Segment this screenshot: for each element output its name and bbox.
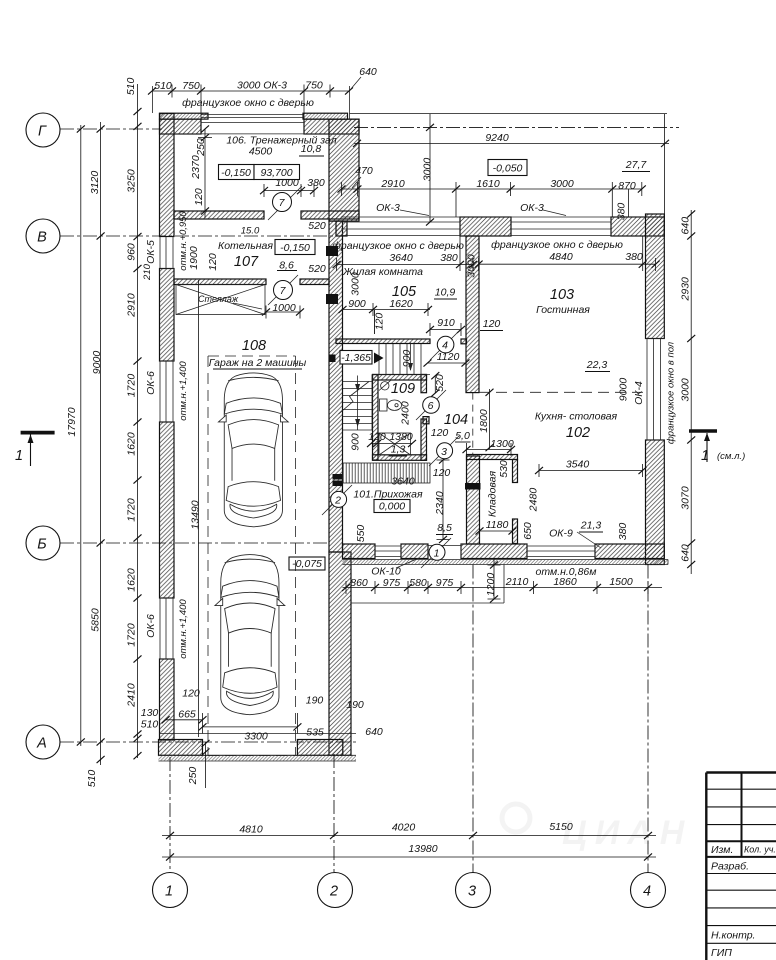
svg-text:5850: 5850 [90, 608, 102, 632]
svg-text:1610: 1610 [476, 178, 500, 190]
svg-text:120: 120 [374, 313, 386, 331]
wall: right wing top, NE corner pier [611, 217, 664, 236]
svg-text:3640: 3640 [389, 252, 413, 264]
svg-text:А: А [36, 736, 47, 752]
ticks room 105 dims [339, 306, 347, 313]
svg-text:210: 210 [142, 263, 153, 281]
svg-text:860: 860 [350, 577, 368, 589]
svg-text:1300: 1300 [490, 438, 514, 450]
svg-text:520: 520 [434, 374, 446, 392]
svg-text:-0,150: -0,150 [280, 242, 310, 254]
wall: gym top, left pier [160, 119, 202, 134]
svg-text:французкое окно в пол: французкое окно в пол [666, 341, 677, 444]
svg-text:2910: 2910 [126, 293, 138, 318]
svg-text:3: 3 [468, 884, 476, 900]
wall: gym-boiler partition right piece [301, 211, 359, 219]
vert dim 13490 garage [198, 280, 200, 737]
underline 22,3 [585, 371, 610, 373]
dim line 1120 hall [428, 362, 466, 364]
svg-text:120: 120 [193, 188, 205, 206]
svg-text:4: 4 [442, 340, 448, 352]
svg-text:2340: 2340 [434, 491, 446, 516]
leader Стеллаж [233, 303, 262, 309]
svg-text:3300: 3300 [244, 731, 268, 743]
svg-text:250: 250 [187, 767, 199, 786]
svg-text:640: 640 [680, 217, 692, 235]
dashed boundary 104/102 [472, 393, 474, 455]
svg-text:380: 380 [307, 177, 325, 189]
ticks top gym dim [148, 87, 156, 94]
shelf Стеллаж with X cross [176, 285, 265, 315]
svg-text:4500: 4500 [249, 146, 273, 158]
svg-text:3540: 3540 [566, 459, 590, 471]
svg-text:-0,050: -0,050 [493, 163, 523, 175]
level box -0,150 boiler [275, 240, 315, 255]
svg-text:4020: 4020 [392, 822, 416, 834]
svg-text:Изм.: Изм. [711, 844, 733, 856]
svg-text:ОК-3: ОК-3 [376, 202, 400, 214]
wall: gym east thick wall [329, 119, 359, 221]
wall: garage bottom right pier [297, 740, 342, 756]
extension NE pier [627, 189, 629, 217]
svg-text:102: 102 [566, 425, 590, 441]
svg-text:120: 120 [483, 318, 501, 330]
svg-text:0,000: 0,000 [379, 501, 405, 513]
svg-text:101.Прихожая: 101.Прихожая [353, 489, 423, 501]
svg-text:Кладовая: Кладовая [487, 470, 499, 517]
axis 2 vertical dash-dot [333, 754, 335, 872]
svg-text:190: 190 [306, 695, 324, 707]
level box -0,075 garage [289, 557, 325, 570]
leader ОК-3 #1 [400, 210, 429, 216]
svg-text:-0,150: -0,150 [221, 167, 251, 179]
dim line: boiler door 1000 [266, 306, 300, 319]
svg-text:130: 130 [141, 707, 159, 719]
svg-text:640: 640 [359, 66, 377, 78]
svg-text:470: 470 [355, 165, 373, 177]
window OK-10 bottom wall [375, 544, 401, 559]
svg-text:2410: 2410 [126, 683, 138, 708]
wall: bathroom east lower [421, 419, 427, 460]
svg-text:1000: 1000 [272, 302, 296, 314]
vent duct black squares corridor wall [326, 246, 338, 256]
svg-text:3: 3 [441, 446, 447, 458]
wall: left exterior, segment below OK-5 [160, 269, 175, 362]
axis В horizontal dash-dot [60, 235, 340, 237]
vert dim 1800 (102 west) [489, 389, 491, 449]
svg-text:3000: 3000 [550, 178, 574, 190]
entry mat hatch [343, 463, 430, 483]
wall: corridor west / garage east wall [329, 221, 343, 552]
ticks 9240 [353, 140, 361, 147]
ticks right wing top dims [338, 185, 346, 192]
svg-text:520: 520 [308, 220, 326, 232]
stairs arrow left flight [357, 376, 359, 431]
entrance door opening edges [428, 544, 461, 559]
svg-text:3250: 3250 [126, 169, 138, 193]
svg-text:-1,365: -1,365 [341, 352, 371, 364]
parking space dashed lines [208, 356, 296, 756]
svg-text:750: 750 [182, 80, 200, 92]
vert dim 1200 porch [488, 559, 501, 600]
svg-text:9000: 9000 [618, 378, 630, 402]
wall: bottom wall piece 1 (x346-375) [343, 544, 376, 559]
svg-text:отм.н.+1,400: отм.н.+1,400 [178, 361, 189, 421]
left dim column x=97 [100, 122, 102, 765]
wall: right exterior upper segment [646, 214, 665, 339]
dashed divider rooms 103/102 [479, 391, 645, 393]
level box -0,050 [488, 160, 527, 176]
vent block left of -1,365 [329, 355, 336, 363]
svg-text:380: 380 [625, 251, 643, 263]
blind area hatch right [343, 560, 669, 565]
level box 93,700 gym [254, 165, 300, 180]
wash basin [381, 382, 389, 390]
wall: gym-boiler partition left piece [174, 211, 264, 219]
svg-text:Жилая комната: Жилая комната [342, 266, 423, 278]
blind area strip below south wall [343, 560, 669, 565]
window OK-6a left wall [160, 361, 174, 422]
wall: bathroom west [373, 375, 379, 461]
wall: partition below room 105 [336, 339, 430, 344]
dim line: bathroom 120/1380 [371, 443, 412, 445]
axis circle 3 [456, 873, 491, 908]
underline 10,8 [299, 155, 324, 157]
svg-text:9240: 9240 [485, 132, 509, 144]
vert dim 520 bathroom [434, 376, 436, 393]
svg-text:4: 4 [643, 884, 651, 900]
svg-text:650: 650 [522, 522, 534, 540]
stairs break line [339, 382, 370, 415]
ticks left col x97 [97, 125, 105, 132]
svg-text:103: 103 [550, 287, 574, 303]
ticks 250 [202, 740, 210, 747]
window OK-5 left wall [160, 237, 174, 269]
axis 3 vertical dash-dot [472, 565, 474, 874]
leader ОК-10 [396, 558, 419, 568]
svg-text:ГИП: ГИП [711, 947, 732, 959]
shower tray with X [379, 433, 411, 455]
svg-text:2370: 2370 [190, 155, 202, 180]
underline Гараж на 2 машины [213, 368, 302, 370]
svg-text:870: 870 [618, 180, 636, 192]
svg-text:8,6: 8,6 [279, 260, 294, 272]
svg-text:22,3: 22,3 [586, 359, 608, 371]
wall: bathroom east upper [421, 375, 427, 393]
svg-text:французкое окно с дверью: французкое окно с дверью [332, 240, 464, 252]
marker circle 1 [429, 544, 445, 560]
dim line: french window 105 (3640,380) [337, 236, 473, 271]
wall: right wing top, small west piece [336, 221, 347, 236]
dim line 665 [166, 719, 203, 721]
extension lines top-left corner [152, 86, 349, 119]
svg-text:250: 250 [195, 138, 207, 157]
dim line: 910 door [430, 323, 461, 336]
svg-text:ОК-4: ОК-4 [633, 381, 645, 405]
right dim column x=691 [690, 210, 692, 574]
svg-text:2: 2 [329, 884, 338, 900]
window OK-9 bottom wall [527, 544, 595, 559]
small dim 250 below garage [205, 742, 207, 788]
underline 120 (103) [480, 330, 503, 332]
svg-text:665: 665 [178, 709, 196, 721]
svg-text:В: В [37, 230, 47, 246]
svg-text:Гостинная: Гостинная [536, 304, 590, 316]
dim line: right wing top (470,2910,1610,3000,870) [342, 182, 643, 217]
svg-text:2480: 2480 [528, 488, 540, 513]
vert dim 2340 hall [437, 460, 450, 540]
dim line: garage door 3300 [203, 713, 298, 734]
axis circle 1 [153, 873, 188, 908]
svg-text:1: 1 [701, 448, 709, 464]
ticks right col x691 [687, 210, 695, 217]
wall: gym top facade strip right [303, 113, 348, 119]
svg-text:(см.л.): (см.л.) [717, 451, 745, 462]
wall: storeroom east stub lower [513, 519, 518, 544]
svg-text:1720: 1720 [126, 374, 138, 398]
ticks 3540 [535, 467, 543, 474]
dim line: kitchen 3540 [539, 464, 643, 477]
svg-text:3070: 3070 [680, 486, 692, 510]
svg-text:120: 120 [433, 467, 451, 479]
svg-text:2110: 2110 [505, 576, 529, 588]
svg-text:120: 120 [207, 253, 219, 271]
ticks 1300 [463, 446, 471, 453]
svg-text:3120: 3120 [89, 171, 101, 195]
marker circle 7 gym [273, 193, 292, 212]
wall: bottom wall piece 4 (x595-664) [595, 544, 664, 559]
axis Г horizontal dash-dot [60, 128, 162, 130]
svg-text:27,7: 27,7 [625, 159, 648, 171]
vent square storeroom wall [465, 483, 481, 490]
axis circle А [26, 725, 60, 759]
wall: garage east wall lower with facing [329, 552, 351, 755]
porch edge at entrance [351, 565, 504, 604]
french window room 105 top [341, 222, 460, 236]
stairs arrow upper flight [410, 343, 412, 371]
underline 120 (105) rotated [374, 310, 376, 334]
toilet tank [380, 399, 388, 411]
svg-text:530: 530 [498, 460, 510, 478]
wall: storeroom east stub upper [513, 460, 518, 483]
svg-text:21,3: 21,3 [580, 520, 602, 532]
marker circle 4 [437, 336, 454, 353]
dim line: gym door 1000/380 [264, 184, 314, 197]
top thin line right wing [350, 114, 668, 217]
leader 640 top [350, 77, 361, 90]
svg-text:900: 900 [348, 298, 366, 310]
ticks 2340 [439, 456, 447, 463]
svg-text:1900: 1900 [188, 246, 200, 270]
svg-text:2: 2 [334, 494, 341, 506]
dim line: bottom axes row 1 (4810,4020,5150) [162, 835, 656, 837]
svg-text:108: 108 [242, 338, 266, 354]
blind area hatch below garage [159, 755, 357, 761]
ticks 1200 [490, 561, 498, 568]
axis circle В [26, 219, 60, 253]
stairs left flight treads [343, 382, 373, 431]
left dim column x=70 (17970) [80, 125, 82, 746]
ticks gym door [260, 187, 268, 194]
faint site watermark [502, 804, 692, 852]
wall: door jamb jog [423, 417, 429, 424]
ticks 520/1120 [431, 372, 439, 379]
svg-text:105: 105 [392, 284, 417, 300]
wall: gym top, right pier [304, 119, 359, 134]
ticks boiler door [262, 308, 270, 315]
axis circle 4 [631, 873, 666, 908]
svg-text:107: 107 [234, 254, 259, 270]
svg-text:104: 104 [444, 412, 468, 428]
svg-text:10,8: 10,8 [301, 143, 322, 155]
wall: boiler-garage partition left piece [174, 279, 266, 285]
ticks bathroom 120/1380 [367, 440, 375, 447]
wall: left exterior, segment top (gym+boiler) [160, 114, 175, 237]
underline 1,3 [389, 455, 407, 457]
ticks 1180 [476, 527, 484, 534]
ticks garage door [199, 723, 207, 730]
stairs upper flight treads [379, 344, 421, 375]
ticks 1800 [486, 389, 494, 396]
marker leaders [268, 186, 460, 568]
svg-text:4810: 4810 [239, 824, 263, 836]
svg-text:975: 975 [436, 577, 454, 589]
axis 1 vertical dash-dot [169, 757, 171, 872]
svg-text:3000: 3000 [422, 158, 434, 182]
dim line: bottom total 13980 [162, 856, 656, 858]
wall: left exterior, bottom garage segment [160, 659, 175, 740]
french window room 103 top [511, 222, 611, 236]
svg-text:1: 1 [165, 884, 173, 900]
svg-text:французкое окно с дверью: французкое окно с дверью [491, 239, 623, 251]
svg-text:750: 750 [305, 80, 323, 92]
ticks gym vert [201, 125, 209, 132]
svg-text:3000: 3000 [466, 254, 478, 278]
section marker left [21, 431, 55, 435]
svg-text:380: 380 [616, 203, 628, 221]
vert dim gym left (250,2370) [198, 129, 212, 218]
underline 8,5 [436, 534, 453, 536]
wall: left exterior, middle garage segment [160, 422, 175, 598]
svg-text:8,5: 8,5 [437, 522, 452, 534]
svg-text:510: 510 [86, 770, 98, 788]
svg-text:1620: 1620 [126, 432, 138, 456]
svg-text:Б: Б [37, 537, 46, 553]
svg-text:510: 510 [141, 719, 159, 731]
window OK-6b left wall [160, 598, 174, 659]
svg-text:-0,075: -0,075 [292, 558, 322, 570]
ticks bottom axes dims [166, 832, 174, 839]
level box -1,365 stairs [340, 351, 372, 365]
svg-text:Разраб.: Разраб. [711, 861, 749, 873]
wall: corner piece at 910 opening [461, 339, 467, 344]
wall: bathroom bottom [373, 455, 427, 461]
svg-text:510: 510 [154, 80, 172, 92]
svg-text:1: 1 [434, 547, 440, 559]
marker circle 7 boiler [274, 281, 293, 300]
wall: bottom wall pier 2 (x401-428) [401, 544, 428, 559]
svg-text:550: 550 [355, 525, 367, 543]
svg-text:4840: 4840 [549, 251, 573, 263]
svg-text:1500: 1500 [609, 576, 633, 588]
svg-text:2930: 2930 [680, 277, 692, 302]
axis А horizontal dash-dot [60, 741, 356, 743]
underline 5,0 [455, 441, 471, 443]
svg-text:15.0: 15.0 [241, 226, 260, 237]
svg-text:535: 535 [306, 727, 324, 739]
svg-text:Котельная: Котельная [218, 240, 273, 252]
dim line: room 105 (900,1620) [343, 303, 431, 316]
svg-text:510: 510 [125, 77, 137, 95]
svg-text:109: 109 [391, 381, 415, 397]
dim row: bottom wall (860,975,580,975,2110,1860,1500) [343, 581, 663, 594]
svg-text:1720: 1720 [126, 498, 138, 522]
vert dim 3000 at x430 [429, 114, 431, 222]
dim line: french window 103 (4840,380) [479, 236, 656, 271]
svg-text:640: 640 [365, 726, 383, 738]
ticks 910 [426, 326, 434, 333]
svg-text:Кухня- столовая: Кухня- столовая [535, 411, 618, 423]
svg-text:отм.н.+1,400: отм.н.+1,400 [178, 599, 189, 659]
toilet bowl [388, 400, 402, 410]
marker circle 6 [423, 397, 440, 414]
marker circle 3 [437, 443, 453, 459]
svg-text:580: 580 [409, 577, 427, 589]
svg-text:190: 190 [346, 699, 364, 711]
svg-text:93,700: 93,700 [260, 167, 292, 179]
dim line: storeroom 1300 [467, 443, 512, 456]
leader 470 top [352, 177, 361, 188]
svg-text:900: 900 [350, 433, 362, 451]
svg-text:1: 1 [15, 448, 23, 464]
svg-text:ЦИАН: ЦИАН [562, 814, 692, 852]
ticks left col x131 [134, 108, 142, 115]
svg-text:9000: 9000 [91, 351, 103, 375]
svg-text:17970: 17970 [66, 407, 78, 436]
svg-text:ОК-5: ОК-5 [145, 240, 157, 264]
underline 10,9 [434, 298, 457, 300]
ticks left col x70 [77, 125, 85, 132]
svg-text:640: 640 [680, 544, 692, 562]
dim line: 9240 [354, 142, 669, 144]
svg-text:1800: 1800 [478, 409, 490, 433]
svg-text:Г: Г [38, 124, 47, 140]
axis circle Б [26, 526, 60, 560]
axis 4 vertical dash-dot [647, 565, 649, 874]
wall: storeroom top wall [467, 455, 518, 460]
dim line: storeroom 1180 [480, 525, 513, 538]
svg-text:520: 520 [308, 263, 326, 275]
marker circle 2 [331, 491, 347, 507]
leader ОК-9 [577, 532, 601, 548]
ticks bottom wall dim row [342, 584, 350, 591]
wall: right wing top, pier between 105 and 103 [460, 217, 511, 236]
svg-text:Кол. уч.: Кол. уч. [744, 845, 776, 855]
svg-text:2910: 2910 [380, 178, 405, 190]
underline 21,3 [579, 531, 603, 533]
svg-text:13490: 13490 [190, 500, 202, 529]
svg-text:отм.н.0,86м: отм.н.0,86м [536, 566, 597, 578]
wall: boiler-garage partition right piece [300, 279, 329, 285]
dim line: top of gym (510,750,3000,750,640) [152, 85, 349, 123]
axis Б horizontal dash-dot [60, 542, 330, 544]
svg-text:10,9: 10,9 [435, 287, 456, 299]
ticks vert 3000 [426, 124, 434, 131]
right wing top facade outer line [341, 216, 659, 218]
svg-text:1180: 1180 [486, 519, 509, 531]
underline 8,6 [277, 270, 297, 272]
level mark arrow near -1,365 [374, 353, 384, 364]
